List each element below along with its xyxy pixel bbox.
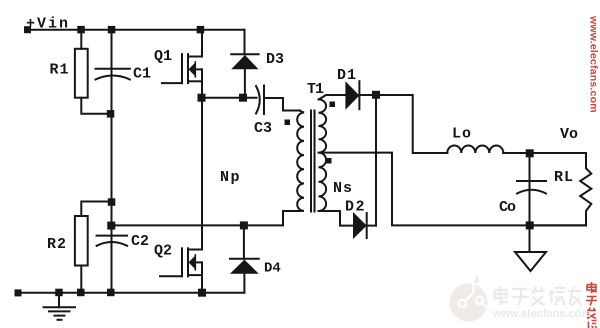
transformer T1 secondary winding Ns	[319, 99, 327, 211]
svg-text:Co: Co	[499, 199, 516, 216]
watermark logo elecfans	[450, 273, 488, 322]
wire secondary center tap	[319, 153, 587, 226]
node R2 bottom	[77, 289, 85, 297]
node D1 cathode junction	[372, 91, 380, 99]
capacitor C1	[111, 30, 113, 202]
transistor Q1	[162, 82, 182, 84]
wire secondary bottom lead	[319, 211, 353, 226]
node C1 top	[108, 26, 116, 34]
node bottom-left terminal	[15, 289, 22, 296]
svg-text:+Vin: +Vin	[26, 16, 70, 33]
transformer core	[310, 111, 312, 212]
svg-text:D2: D2	[345, 199, 366, 216]
node R1 bottom	[107, 110, 115, 118]
wire switch node rail	[202, 97, 257, 99]
svg-text:www.elecfans.com: www.elecfans.com	[492, 308, 591, 320]
node D3 anode	[239, 94, 247, 102]
svg-text:R2: R2	[47, 236, 67, 253]
diode D2	[353, 212, 367, 239]
inductor Lo	[447, 146, 503, 153]
svg-text:RL: RL	[554, 169, 574, 186]
svg-text:Np: Np	[220, 169, 241, 186]
capacitor C3	[256, 86, 260, 114]
svg-text:Lo: Lo	[452, 126, 472, 143]
node primary polarity dot	[285, 120, 291, 126]
node Q1 drain	[197, 26, 205, 34]
svg-text:T1: T1	[307, 81, 324, 98]
ground output	[529, 225, 531, 252]
node ground tap	[55, 289, 63, 297]
capacitor C2	[111, 202, 113, 293]
node D4 top	[240, 221, 248, 229]
svg-text:Ns: Ns	[333, 180, 353, 197]
svg-text:D4: D4	[264, 261, 281, 277]
node R2 top	[108, 198, 116, 206]
ground left earth symbol	[58, 293, 60, 307]
diode D3	[231, 53, 258, 55]
wire D3 cathode vertical	[244, 30, 246, 55]
wire primary bottom return	[112, 211, 300, 225]
node R1 top	[77, 26, 85, 34]
wire top rail +Vin	[28, 29, 245, 31]
wire D1-D2 junction vertical	[375, 95, 377, 226]
svg-text:C2: C2	[131, 233, 149, 250]
node C2 top / primary return junction	[107, 222, 115, 230]
svg-text:Q2: Q2	[154, 243, 172, 260]
svg-text:D1: D1	[337, 67, 357, 84]
node Q1 source	[198, 94, 206, 102]
resistor R2	[81, 202, 111, 217]
wire secondary top lead	[319, 95, 346, 99]
svg-text:www.elecfans.com: www.elecfans.com	[588, 15, 600, 113]
resistor R1	[80, 30, 82, 49]
svg-text:D3: D3	[266, 51, 284, 68]
node top-left terminal	[24, 26, 31, 33]
transistor Q2	[160, 275, 182, 277]
wire output bottom rail	[530, 224, 587, 226]
diode D4	[243, 225, 245, 258]
node C2 bottom	[107, 289, 115, 297]
node Lo output	[526, 149, 534, 157]
diode D1	[345, 81, 359, 110]
resistor RL	[580, 153, 591, 225]
node Q2 source	[198, 289, 206, 297]
node Co bottom	[526, 221, 534, 229]
node secondary mid polarity dot	[326, 158, 332, 164]
svg-text:C1: C1	[133, 66, 151, 83]
watermark text 电子发烧友 (drawn glyphs)	[495, 286, 582, 306]
watermark red vertical CJK bottom-right (drawn glyphs)	[586, 282, 597, 328]
node secondary top polarity dot	[330, 102, 336, 108]
wire bottom ground rail	[18, 292, 244, 294]
svg-text:R1: R1	[50, 62, 70, 79]
svg-text:C3: C3	[254, 120, 272, 137]
capacitor Co	[529, 153, 531, 225]
svg-text:Vo: Vo	[560, 126, 578, 143]
transformer T1 primary winding Np	[297, 111, 304, 212]
svg-text:Q1: Q1	[154, 48, 172, 65]
